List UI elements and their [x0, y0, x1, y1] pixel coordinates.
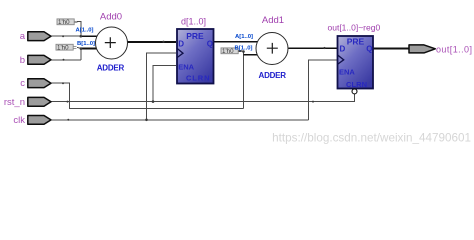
dot on b wire [63, 59, 65, 61]
junction ena1 on rst_n [152, 100, 155, 103]
wire const1 to a-wire riser [77, 22, 81, 37]
svg-text:B[1..0]: B[1..0] [234, 46, 252, 52]
svg-text:CLRN: CLRN [346, 80, 367, 89]
wire clk riser to reg1 clock [147, 53, 177, 120]
svg-text:Q: Q [207, 39, 213, 48]
register d[1..0] [177, 16, 214, 83]
dot on rst_n wire [67, 101, 69, 103]
junction const3/c riser [242, 50, 245, 53]
CLRN bubble [352, 89, 357, 94]
svg-text:Add1: Add1 [262, 15, 284, 26]
svg-text:D: D [340, 44, 346, 53]
svg-text:rst_n: rst_n [4, 97, 25, 108]
svg-text:https://blog.csdn.net/weixin_4: https://blog.csdn.net/weixin_44790601 [272, 132, 471, 145]
bus c+const to Add1.B [244, 54, 258, 56]
bus reg2 Q to out port [374, 48, 410, 50]
wire rst_n net [51, 94, 355, 102]
bus Add0 out to reg1 D [128, 41, 177, 43]
input port rst_n [4, 97, 51, 108]
wire b riser [80, 49, 82, 60]
blip on Add1 out wire [323, 47, 325, 49]
wire c riser to Add1.B junction [243, 51, 245, 108]
input port clk [13, 115, 51, 126]
register out[1..0]~reg0 [328, 22, 381, 94]
svg-text:CLRN: CLRN [186, 73, 210, 82]
svg-text:ENA: ENA [339, 68, 355, 77]
wire ena1 riser rst_n to reg1 ENA [153, 65, 176, 101]
svg-text:d[1..0]: d[1..0] [181, 16, 206, 26]
constant 1'h0 box2 [56, 44, 77, 51]
junction clk branch [145, 119, 148, 122]
bus b+const to Add0.B [81, 48, 97, 50]
wire const3 stub [239, 50, 244, 52]
svg-text:PRE: PRE [347, 37, 365, 47]
bus Add1 out to reg2 D [289, 47, 338, 49]
svg-text:a: a [20, 31, 26, 42]
svg-text:1'h0: 1'h0 [57, 44, 69, 51]
wire clk riser2 to reg2 clock [308, 60, 337, 120]
junction const2/b [80, 47, 83, 50]
wire clk net [51, 119, 308, 121]
svg-text:=: = [74, 20, 78, 26]
dot on clk wire [67, 119, 69, 121]
dot on a wire [62, 35, 64, 37]
svg-text:B[1..0]: B[1..0] [77, 41, 95, 47]
svg-text:ADDER: ADDER [97, 63, 125, 72]
svg-text:1'h0: 1'h0 [58, 19, 70, 26]
wire const2 stub [77, 47, 81, 48]
wires group [51, 22, 355, 120]
constant 1'h0 box1 [57, 19, 78, 26]
dot on c wire [62, 82, 64, 84]
svg-text:Add0: Add0 [100, 12, 122, 23]
bus wires (2-bit, thicker) [81, 36, 409, 55]
junction dots [62, 35, 326, 121]
blip on Add0 out wire [162, 41, 164, 43]
svg-text:1'h0: 1'h0 [222, 48, 234, 55]
wire b to riser [51, 59, 81, 61]
svg-text:out[1..0]: out[1..0] [436, 45, 472, 55]
svg-text:out[1..0]~reg0: out[1..0]~reg0 [328, 22, 381, 32]
wire a to junction [51, 35, 81, 37]
svg-text:PRE: PRE [186, 31, 204, 41]
svg-text:A[1..0]: A[1..0] [235, 34, 253, 40]
svg-text:D: D [178, 39, 184, 48]
output port out[1..0] [409, 45, 472, 55]
svg-text:ADDER: ADDER [259, 71, 287, 80]
svg-text:ENA: ENA [178, 62, 194, 71]
adder Add0 [75, 12, 127, 73]
input port c [20, 78, 51, 89]
bus a+const to Add0.A [81, 35, 97, 37]
svg-text:c: c [20, 78, 25, 89]
svg-text:Q: Q [366, 44, 372, 53]
wire c net [51, 83, 244, 108]
svg-text:clk: clk [13, 115, 25, 126]
input port b [20, 55, 51, 66]
constant 1'h0 box3 [221, 48, 242, 55]
bus reg1 Q to Add1.A [214, 41, 258, 43]
dot on rst_n wire 2 [312, 101, 314, 103]
svg-text:b: b [20, 55, 25, 66]
svg-text:A[1..0]: A[1..0] [75, 27, 93, 33]
input port a [20, 31, 51, 42]
junction const1/a [80, 35, 83, 38]
adder Add1 [234, 15, 288, 80]
